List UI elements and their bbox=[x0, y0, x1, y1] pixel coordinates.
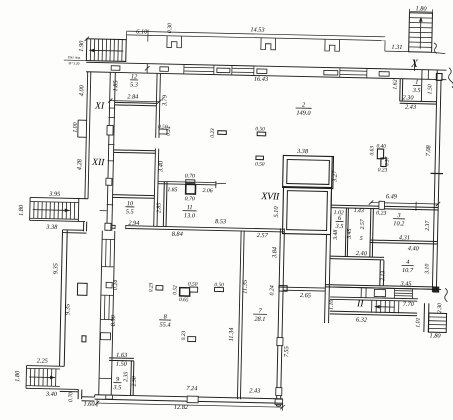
svg-text:0.50: 0.50 bbox=[214, 282, 224, 288]
svg-text:11.35: 11.35 bbox=[241, 280, 248, 294]
svg-text:7.08: 7.08 bbox=[425, 144, 432, 156]
svg-text:0.23: 0.23 bbox=[210, 128, 216, 138]
svg-text:4.40: 4.40 bbox=[408, 245, 420, 252]
svg-text:28.1: 28.1 bbox=[254, 316, 265, 323]
svg-text:0.23: 0.23 bbox=[181, 330, 187, 340]
svg-text:XII: XII bbox=[91, 158, 105, 168]
svg-text:5.3: 5.3 bbox=[130, 81, 138, 88]
svg-text:8.53: 8.53 bbox=[215, 218, 226, 225]
svg-text:1.43: 1.43 bbox=[354, 207, 364, 214]
svg-text:0.70: 0.70 bbox=[185, 196, 195, 202]
svg-text:5.5: 5.5 bbox=[126, 208, 134, 215]
svg-text:3: 3 bbox=[396, 212, 400, 219]
svg-text:0.23: 0.23 bbox=[376, 210, 386, 216]
svg-text:2.06: 2.06 bbox=[202, 188, 212, 194]
svg-text:2.84: 2.84 bbox=[127, 93, 138, 100]
svg-text:6.10: 6.10 bbox=[136, 28, 148, 35]
svg-text:2.94: 2.94 bbox=[128, 220, 139, 227]
svg-text:1.85: 1.85 bbox=[167, 187, 177, 193]
svg-text:3.45: 3.45 bbox=[399, 280, 411, 287]
svg-text:XI: XI bbox=[94, 101, 105, 111]
svg-text:1.85: 1.85 bbox=[112, 80, 119, 91]
svg-text:3.38: 3.38 bbox=[296, 148, 309, 155]
svg-text:1.80: 1.80 bbox=[14, 370, 21, 382]
svg-text:14.53: 14.53 bbox=[250, 26, 264, 33]
svg-text:149.0: 149.0 bbox=[296, 110, 311, 117]
svg-text:XVII: XVII bbox=[260, 191, 280, 202]
svg-text:II: II bbox=[356, 299, 364, 309]
svg-text:3.27: 3.27 bbox=[331, 170, 338, 183]
svg-text:0.23: 0.23 bbox=[148, 282, 154, 292]
svg-text:11.34: 11.34 bbox=[228, 328, 235, 342]
svg-text:8.90: 8.90 bbox=[110, 314, 117, 326]
svg-text:5.10: 5.10 bbox=[273, 206, 280, 218]
svg-text:0.65: 0.65 bbox=[179, 297, 189, 303]
svg-text:2.37: 2.37 bbox=[425, 220, 431, 231]
svg-text:0.24: 0.24 bbox=[166, 126, 172, 136]
svg-text:1.01: 1.01 bbox=[415, 317, 421, 327]
svg-text:3.48: 3.48 bbox=[332, 230, 339, 241]
svg-text:2.43: 2.43 bbox=[249, 387, 260, 394]
svg-text:2.30: 2.30 bbox=[437, 303, 443, 313]
svg-text:0.63: 0.63 bbox=[369, 146, 375, 156]
svg-text:2.57: 2.57 bbox=[257, 232, 269, 239]
svg-text:2.30: 2.30 bbox=[402, 94, 414, 101]
svg-text:0.24: 0.24 bbox=[112, 280, 119, 290]
svg-text:3.40: 3.40 bbox=[157, 160, 164, 173]
svg-text:10.2: 10.2 bbox=[393, 220, 405, 227]
svg-text:3.45: 3.45 bbox=[346, 228, 353, 239]
svg-text:0.70: 0.70 bbox=[68, 392, 74, 402]
svg-text:4.00: 4.00 bbox=[78, 84, 85, 96]
svg-text:12: 12 bbox=[131, 73, 138, 80]
svg-text:0.50: 0.50 bbox=[255, 126, 265, 132]
svg-text:2.13: 2.13 bbox=[380, 271, 386, 281]
svg-text:2.65: 2.65 bbox=[300, 292, 311, 299]
svg-text:3.84: 3.84 bbox=[271, 247, 278, 259]
svg-text:5: 5 bbox=[360, 236, 363, 242]
svg-text:Пкт под: Пкт под bbox=[68, 55, 80, 59]
svg-text:2.43: 2.43 bbox=[405, 104, 416, 111]
svg-text:3.95: 3.95 bbox=[48, 191, 60, 198]
svg-text:2.57: 2.57 bbox=[360, 218, 366, 229]
svg-text:6.32: 6.32 bbox=[356, 316, 368, 323]
svg-text:3.40: 3.40 bbox=[45, 391, 58, 398]
svg-text:2.85: 2.85 bbox=[156, 203, 162, 213]
svg-text:3.5: 3.5 bbox=[412, 87, 421, 94]
svg-text:4: 4 bbox=[406, 259, 409, 266]
svg-text:7.70: 7.70 bbox=[403, 301, 415, 308]
svg-text:1.80: 1.80 bbox=[415, 5, 427, 12]
svg-text:1.60: 1.60 bbox=[83, 401, 95, 408]
svg-text:7.24: 7.24 bbox=[186, 385, 197, 392]
svg-text:2.35: 2.35 bbox=[123, 371, 129, 381]
svg-text:0.23: 0.23 bbox=[378, 167, 388, 173]
svg-text:3.79: 3.79 bbox=[161, 94, 168, 107]
svg-text:1.50: 1.50 bbox=[427, 84, 433, 94]
svg-text:0.70: 0.70 bbox=[185, 173, 195, 179]
svg-text:0.24: 0.24 bbox=[268, 285, 275, 295]
svg-text:9.35: 9.35 bbox=[64, 304, 71, 315]
svg-text:6.49: 6.49 bbox=[386, 193, 398, 200]
svg-text:1.31: 1.31 bbox=[391, 44, 402, 51]
svg-text:1.10: 1.10 bbox=[329, 299, 335, 309]
svg-text:2.25: 2.25 bbox=[37, 358, 48, 365]
svg-text:4.28: 4.28 bbox=[76, 158, 83, 170]
svg-text:1.80: 1.80 bbox=[429, 332, 441, 339]
svg-text:1: 1 bbox=[415, 79, 418, 86]
svg-text:16.43: 16.43 bbox=[254, 76, 268, 83]
svg-text:1.00: 1.00 bbox=[73, 122, 79, 132]
svg-text:4.31: 4.31 bbox=[399, 234, 410, 241]
svg-text:0.50: 0.50 bbox=[255, 162, 265, 168]
svg-text:1.62: 1.62 bbox=[392, 79, 398, 89]
svg-text:0.50: 0.50 bbox=[188, 281, 198, 287]
svg-text:11: 11 bbox=[187, 204, 193, 211]
svg-text:10.7: 10.7 bbox=[402, 267, 414, 274]
svg-text:0.30: 0.30 bbox=[167, 23, 173, 33]
svg-text:7.55: 7.55 bbox=[283, 346, 290, 357]
svg-text:1.50: 1.50 bbox=[116, 361, 128, 368]
svg-text:3.5: 3.5 bbox=[334, 223, 343, 230]
svg-text:3.5: 3.5 bbox=[112, 384, 121, 391]
svg-text:Н=3.20: Н=3.20 bbox=[68, 61, 79, 65]
svg-text:2.40: 2.40 bbox=[356, 250, 368, 257]
svg-text:9.35: 9.35 bbox=[52, 263, 59, 274]
svg-text:55.4: 55.4 bbox=[159, 321, 170, 328]
svg-text:10: 10 bbox=[127, 200, 134, 207]
svg-text:1.63: 1.63 bbox=[116, 352, 127, 359]
svg-text:8.84: 8.84 bbox=[172, 231, 183, 238]
svg-text:13.0: 13.0 bbox=[184, 212, 196, 219]
svg-text:1.80: 1.80 bbox=[18, 204, 25, 216]
svg-text:3.38: 3.38 bbox=[45, 224, 58, 231]
svg-text:3.10: 3.10 bbox=[424, 264, 430, 275]
svg-text:1.90: 1.90 bbox=[78, 40, 85, 52]
svg-text:0.52: 0.52 bbox=[172, 285, 178, 295]
svg-text:0.57: 0.57 bbox=[385, 156, 391, 166]
svg-text:2.50: 2.50 bbox=[132, 376, 138, 386]
